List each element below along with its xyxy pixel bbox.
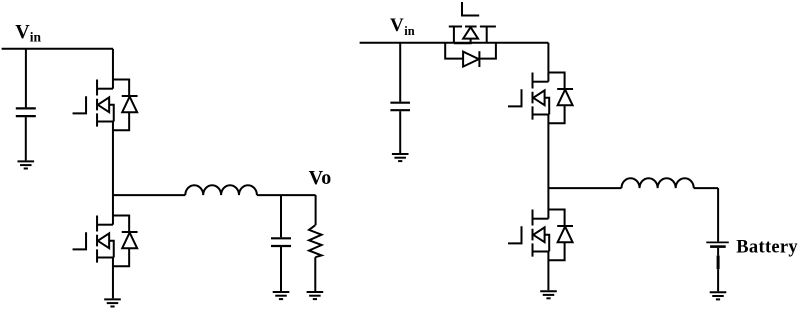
transistor Q3 (high-side MOSFET, right) — [508, 73, 573, 124]
inductor L2 — [622, 178, 694, 188]
capacitor C2 (output cap) — [271, 238, 291, 246]
wire: left top rail Vin — [2, 48, 113, 50]
wire: Q4 drain — [547, 188, 549, 219]
label Vin (left) — [15, 21, 41, 44]
transistor Q2 (low-side MOSFET, left) — [73, 216, 138, 267]
wire: mid rail to inductor — [113, 194, 185, 196]
transistor Q4 (low-side MOSFET, right) — [508, 210, 573, 261]
wire: R1 to ground — [314, 257, 316, 291]
wire: Q1 drain — [112, 49, 114, 89]
label Vin (right) — [390, 15, 415, 38]
ground (under Q4) — [540, 291, 557, 298]
wire: C2 to ground — [280, 247, 282, 291]
wire: Q2 source to ground — [112, 258, 114, 299]
wire: output cap branch — [280, 195, 282, 237]
wire: C1 to ground — [25, 117, 27, 160]
capacitor C1 (left input cap) — [16, 108, 36, 116]
ground (under C1) — [18, 161, 35, 168]
wire: Q4 source to ground — [547, 252, 549, 290]
svg-text:in: in — [30, 29, 42, 44]
svg-text:V: V — [390, 15, 404, 36]
wire: down to battery — [717, 188, 719, 241]
inductor L1 — [185, 185, 257, 195]
wire: Q3 drain — [547, 43, 549, 82]
wire: right input cap drop — [399, 43, 401, 102]
wire: inductor to output node Vo — [257, 194, 316, 196]
wire: left input cap drop — [25, 49, 27, 108]
label Battery — [736, 237, 798, 257]
wire: resistor branch from Vo node — [315, 195, 317, 225]
ground (under R1) — [307, 292, 324, 299]
svg-text:in: in — [404, 24, 414, 38]
ground (under Q2) — [104, 299, 121, 306]
svg-text:V: V — [15, 21, 30, 43]
battery BT1 plates — [706, 241, 729, 243]
svg-text:Vo: Vo — [309, 167, 332, 189]
transistor Q1 (high-side MOSFET, left) — [73, 80, 138, 131]
wire: inductor to battery corner — [694, 187, 718, 189]
svg-text:Battery: Battery — [736, 237, 798, 257]
wire: Q1 source to mid node — [112, 122, 114, 196]
ground (under C2) — [273, 292, 290, 299]
wire: battery lower pin — [717, 248, 719, 256]
capacitor C3 (right input cap) — [390, 103, 410, 111]
wire: Q3 source to mid node — [547, 115, 549, 188]
wire: right top rail Vin — [360, 42, 549, 44]
wire: Q2 drain — [112, 195, 114, 225]
wire: C3 to ground — [399, 111, 401, 153]
wire: right mid rail to inductor — [548, 187, 621, 189]
label Vo — [309, 167, 332, 189]
transistor Q5 (pass MOSFET in series with rail) — [445, 2, 496, 67]
ground (under C3) — [392, 154, 409, 161]
resistor R1 (load) — [309, 225, 322, 257]
ground (under battery) — [710, 292, 727, 299]
